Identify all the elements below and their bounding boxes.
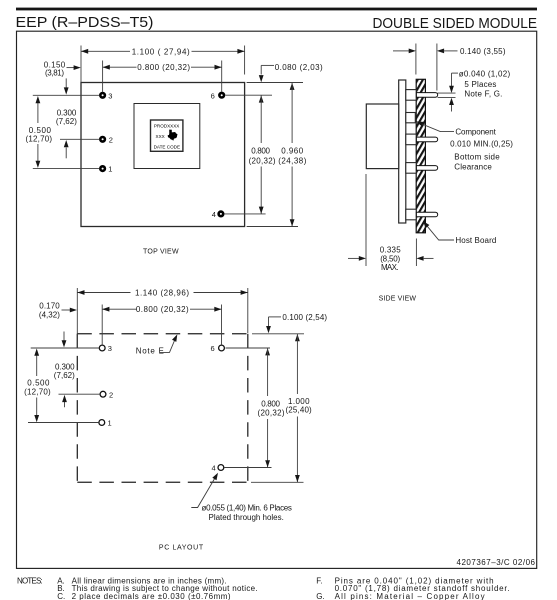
svg-text:All pins: Material – Copper Al: All pins: Material – Copper Alloy: [335, 592, 485, 600]
pc 0.170 down arrow to pin row: [63, 332, 65, 342]
pc 1.140 extension right: [247, 288, 249, 333]
svg-text:1.000: 1.000: [288, 397, 310, 406]
svg-text:MAX.: MAX.: [381, 263, 399, 272]
svg-text:0.800 (20,32): 0.800 (20,32): [136, 305, 189, 314]
side view 0.140 extension line right: [436, 44, 438, 91]
dimension 0.500 (12,70) left: [37, 103, 39, 123]
svg-text:3: 3: [108, 344, 112, 353]
pin 6 row extension right: [226, 94, 273, 96]
extension line module right edge up: [244, 46, 246, 75]
side view bottom-side component block: [406, 113, 416, 123]
hole diameter note leader: [191, 476, 216, 508]
pc extension above hole 3: [101, 305, 103, 346]
svg-text:Clearance: Clearance: [454, 163, 492, 172]
svg-text:1.140 (28,96): 1.140 (28,96): [135, 289, 189, 298]
svg-text:3: 3: [108, 91, 112, 100]
dimension 0.335 (8,50) MAX: [348, 257, 360, 259]
extension line above pin 3: [102, 61, 104, 93]
top view inner label area square: [134, 104, 200, 169]
side view module board: [399, 80, 406, 223]
pc layout hole 6: [219, 345, 225, 351]
pc hole 2 row line: [59, 393, 101, 395]
module bottom edge extension right: [247, 226, 298, 228]
dimension 0.800 (20,32) right vertical: [259, 95, 264, 102]
svg-text:NOTES:: NOTES:: [17, 576, 43, 585]
svg-text:0.800: 0.800: [251, 147, 270, 156]
svg-text:0.100 (2,54): 0.100 (2,54): [282, 313, 327, 322]
0.040 down arrow: [451, 73, 453, 86]
side view pin shoulder row 1: [406, 90, 416, 101]
pc extension above hole 6: [221, 305, 223, 346]
top view pin 6: [219, 92, 225, 98]
svg-text:EEP (R–PDSS–T5): EEP (R–PDSS–T5): [16, 15, 154, 31]
dimension 1.000 (25,40) pc right vertical: [295, 334, 300, 341]
pin 1 row extension line left: [33, 168, 100, 170]
side view pin shoulder row 4: [406, 209, 416, 220]
side view pin row 3: [416, 166, 437, 171]
svg-text:DOUBLE SIDED MODULE: DOUBLE SIDED MODULE: [373, 16, 538, 32]
svg-text:0.170: 0.170: [39, 301, 60, 310]
svg-text:(8,50): (8,50): [380, 254, 400, 263]
svg-text:PC LAYOUT: PC LAYOUT: [159, 544, 204, 551]
svg-text:C.: C.: [57, 592, 65, 600]
note 0.040 (1,02) 5 places: [452, 72, 459, 74]
svg-text:XXX: XXX: [156, 134, 165, 139]
svg-text:2: 2: [109, 135, 113, 144]
pc hole 3 row line: [31, 347, 100, 349]
svg-text:5 Places: 5 Places: [464, 80, 496, 89]
extension line above pin 6: [221, 61, 223, 92]
svg-text:0.960: 0.960: [281, 147, 304, 156]
svg-text:(12,70): (12,70): [26, 135, 53, 144]
svg-text:(4,32): (4,32): [39, 310, 60, 319]
pc layout dashed outline left: [76, 334, 78, 483]
TI texas logo blob: [168, 130, 178, 141]
svg-text:0.500: 0.500: [27, 379, 50, 388]
pin 3 row extension line left: [33, 94, 100, 96]
svg-text:Note E: Note E: [136, 346, 164, 355]
svg-text:1: 1: [108, 165, 112, 174]
pc top edge extension right: [252, 333, 304, 335]
svg-text:(3,81): (3,81): [45, 69, 64, 78]
svg-text:1.100 ( 27,94): 1.100 ( 27,94): [132, 47, 190, 56]
svg-text:Component: Component: [455, 128, 496, 137]
svg-text:(25,40): (25,40): [286, 406, 313, 415]
host board leader: [424, 222, 454, 240]
svg-text:1: 1: [108, 419, 112, 428]
svg-text:4: 4: [212, 464, 216, 473]
svg-text:0.800 (20,32): 0.800 (20,32): [137, 63, 190, 72]
side view pin row 1: [416, 93, 437, 98]
top view label box: [151, 120, 183, 151]
top view pin 2: [100, 136, 106, 142]
dimension 0.040 pin diameter ext lines: [438, 92, 456, 94]
side view pin shoulder row 2: [406, 134, 416, 145]
pc hole 1 row line: [28, 422, 99, 424]
pin 2 row extension line left: [60, 138, 100, 140]
pc layout dashed outline top: [77, 333, 248, 335]
svg-text:SIDE VIEW: SIDE VIEW: [379, 296, 417, 303]
side view 0.335 extension left: [365, 174, 367, 266]
svg-text:(24,38): (24,38): [278, 156, 307, 165]
pc layout hole 2: [100, 391, 106, 397]
svg-text:4: 4: [212, 210, 216, 219]
side view component body: [366, 104, 398, 169]
svg-text:F.: F.: [316, 576, 322, 585]
svg-text:(7,62): (7,62): [54, 371, 75, 380]
side view pin shoulder row 3: [406, 163, 416, 174]
dimension 0.140 (3,55): [393, 50, 409, 52]
dimension 1.140 (28,96): [77, 292, 130, 294]
pc layout dashed outline right: [247, 334, 249, 483]
pc layout hole 3: [99, 345, 105, 351]
svg-text:TOP VIEW: TOP VIEW: [143, 248, 179, 255]
svg-text:ø0.055 (1,40) Min. 6 Places: ø0.055 (1,40) Min. 6 Places: [202, 503, 292, 512]
side view pin row 2: [416, 137, 437, 142]
dimension 1.100 (27,94): [81, 50, 130, 52]
svg-text:DATE CODE: DATE CODE: [154, 145, 180, 150]
header thick rule: [16, 8, 537, 11]
side view host board (hatched): [416, 79, 425, 233]
svg-text:G.: G.: [316, 592, 324, 600]
svg-text:0.300: 0.300: [55, 362, 75, 371]
svg-text:Host Board: Host Board: [455, 236, 496, 245]
dimension 0.960 (24,38) right vertical: [290, 83, 295, 90]
dimension 0.500 (12,70) pc: [36, 355, 38, 376]
svg-text:6: 6: [211, 344, 215, 353]
svg-text:6: 6: [211, 91, 215, 100]
module top edge extension right: [247, 82, 303, 84]
top view module outline: [81, 83, 245, 227]
svg-text:0.010 MIN.(0,25): 0.010 MIN.(0,25): [450, 139, 513, 148]
pin 4 row extension right: [225, 213, 266, 215]
0.040 up arrow: [451, 105, 453, 112]
dimension 0.800 (20,32) pc right vertical: [265, 348, 270, 355]
svg-text:(7,62): (7,62): [56, 117, 77, 126]
svg-text:0.140 (3,55): 0.140 (3,55): [460, 47, 506, 56]
svg-text:ø0.040 (1,02): ø0.040 (1,02): [459, 69, 511, 78]
svg-text:0.080 (2,03): 0.080 (2,03): [275, 63, 323, 72]
top view pin 4: [218, 211, 224, 217]
svg-text:Bottom side: Bottom side: [454, 153, 500, 162]
pc layout dashed outline bottom: [77, 481, 248, 483]
pc layout hole 1: [99, 420, 105, 426]
side view 0.335 extension right: [415, 239, 417, 267]
side view 0.140 extension line left: [415, 44, 417, 75]
svg-text:2 place decimals are ±0.030 (±: 2 place decimals are ±0.030 (±0.76mm): [72, 592, 231, 600]
svg-text:PRODXXXX: PRODXXXX: [154, 124, 180, 129]
dimension 0.800 (20,32) pc top: [102, 308, 136, 310]
svg-text:0.800: 0.800: [261, 400, 280, 409]
svg-text:(20,32): (20,32): [249, 156, 276, 165]
svg-text:(12,70): (12,70): [24, 387, 51, 396]
pc hole 6 row extension right: [226, 347, 271, 349]
top view pin 3: [100, 92, 106, 98]
svg-text:0.335: 0.335: [380, 245, 402, 254]
component leader: [417, 122, 454, 132]
pc 1.140 extension left: [76, 288, 78, 348]
svg-text:2: 2: [109, 390, 113, 399]
svg-text:0.300: 0.300: [57, 108, 77, 117]
svg-text:Plated through holes.: Plated through holes.: [209, 513, 284, 522]
side view pin row 4: [416, 212, 437, 217]
top view pin 1: [100, 166, 106, 172]
svg-text:(20,32): (20,32): [258, 408, 285, 417]
svg-text:Note F, G.: Note F, G.: [464, 90, 502, 99]
pc hole 4 row extension right: [225, 467, 272, 469]
pc layout hole 4: [218, 465, 224, 471]
dimension 0.800 (20,32) top: [103, 66, 137, 68]
svg-text:4207367–3/C 02/06: 4207367–3/C 02/06: [457, 558, 536, 567]
extension line module left edge up: [80, 46, 82, 83]
pc bottom edge extension right: [251, 481, 304, 483]
